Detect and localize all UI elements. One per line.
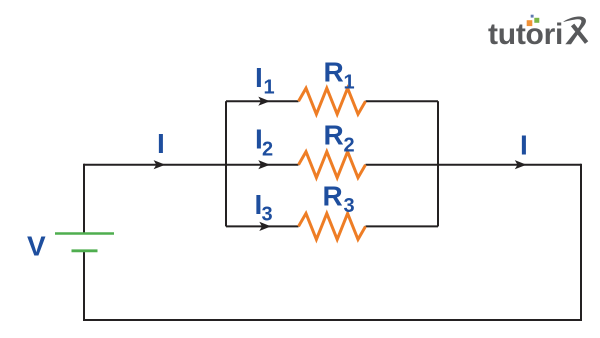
wire: middle horizontal left segment (source to parallel network)	[84, 164, 299, 166]
wire: bottom horizontal	[83, 319, 582, 321]
svg-text:R: R	[324, 57, 344, 88]
svg-text:R: R	[324, 120, 344, 151]
arrow: current I3 on branch 3	[259, 222, 271, 231]
wire: left vertical lower (battery down to bottom wire)	[83, 251, 85, 320]
wire: left junction vertical	[225, 101, 227, 226]
svg-text:I: I	[157, 128, 165, 159]
wire: middle horizontal right segment (network to right side)	[366, 164, 582, 166]
logo tutorix: blue square	[531, 15, 534, 18]
svg-text:I: I	[520, 129, 528, 160]
svg-text:tutori: tutori	[488, 18, 563, 51]
battery V: short negative plate	[72, 249, 98, 252]
battery V: long positive plate	[55, 232, 114, 235]
wire: branch 1 left segment	[226, 100, 299, 102]
svg-text:V: V	[27, 230, 46, 261]
svg-text:1: 1	[344, 72, 355, 94]
svg-text:2: 2	[344, 135, 355, 157]
logo tutorix: stylized x stroke (backslash)	[573, 25, 587, 43]
wire: branch 1 right segment	[366, 100, 439, 102]
arrow: current I on middle wire left	[154, 160, 166, 169]
svg-text:I: I	[255, 62, 263, 93]
svg-text:3: 3	[262, 204, 273, 226]
arrow: current I on middle wire right	[515, 160, 527, 169]
svg-text:1: 1	[264, 77, 275, 99]
wire: left vertical upper (middle wire down to battery)	[83, 164, 85, 234]
svg-text:R: R	[323, 181, 343, 212]
wire: right junction vertical	[437, 101, 439, 226]
arrow: current I2 on branch 2	[258, 160, 270, 169]
resistor R2 zigzag	[299, 152, 366, 178]
svg-text:3: 3	[344, 195, 355, 217]
logo tutorix: green square	[534, 18, 539, 23]
logo tutorix: stylized x swoosh stroke	[563, 16, 586, 44]
wire: branch 3 left segment	[226, 225, 299, 227]
wire: branch 3 right segment	[366, 225, 439, 227]
wire: right vertical	[580, 164, 582, 321]
arrow: current I1 on branch 1	[258, 97, 270, 106]
svg-text:2: 2	[262, 139, 273, 161]
logo tutorix: orange square	[527, 20, 533, 26]
resistor R3 zigzag	[299, 213, 366, 239]
resistor R1 zigzag	[299, 88, 366, 114]
